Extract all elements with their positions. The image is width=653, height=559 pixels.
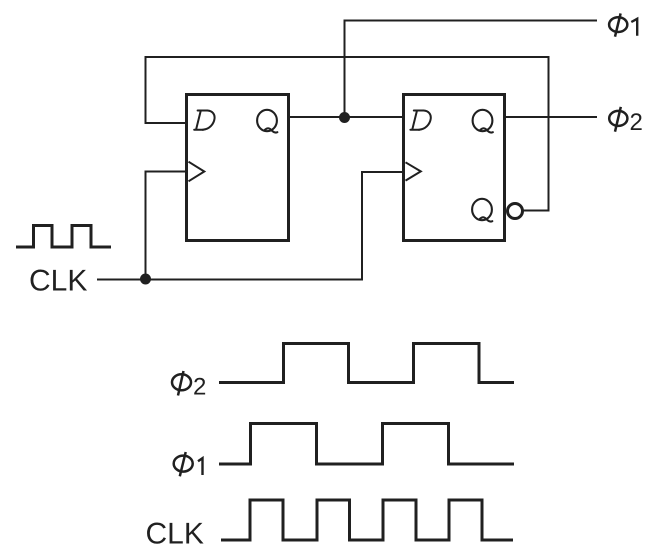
svg-text:CLK: CLK (146, 518, 204, 551)
svg-text:2: 2 (630, 109, 643, 136)
svg-text:CLK: CLK (29, 265, 87, 298)
svg-text:2: 2 (193, 374, 206, 401)
